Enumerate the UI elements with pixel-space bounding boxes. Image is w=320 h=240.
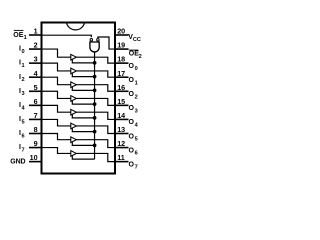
wire input I7 to buffer bbox=[42, 148, 71, 154]
buffer U4 (tri-state) bbox=[71, 96, 77, 102]
junction dot enable row 2 bbox=[93, 75, 97, 79]
wire enable branch to buffer U8 bbox=[72, 156, 94, 159]
enable net vertical line bbox=[94, 52, 96, 159]
buffer U3 (tri-state) bbox=[71, 82, 77, 88]
svg-text:12: 12 bbox=[117, 139, 125, 148]
junction dot enable row 4 bbox=[93, 102, 97, 106]
buffer U8 (tri-state) bbox=[71, 151, 77, 157]
pin 5 stub bbox=[29, 90, 42, 92]
svg-text:13: 13 bbox=[117, 125, 125, 134]
wire enable branch to buffer U2 bbox=[72, 73, 94, 76]
wire buffer U7 output to pin O6 bbox=[76, 140, 115, 148]
pin 9 stub bbox=[29, 147, 42, 149]
pin 4 stub bbox=[29, 76, 42, 78]
pin 19 stub bbox=[115, 48, 129, 50]
svg-text:5: 5 bbox=[22, 119, 25, 125]
IC body outline bbox=[42, 23, 116, 174]
svg-text:4: 4 bbox=[135, 123, 139, 129]
wire enable branch to buffer U7 bbox=[72, 142, 94, 145]
pin 10 stub bbox=[29, 161, 42, 163]
pin 7 stub bbox=[29, 118, 42, 120]
pin 15 stub bbox=[115, 104, 129, 106]
svg-text:O: O bbox=[129, 147, 135, 154]
svg-text:7: 7 bbox=[34, 111, 38, 120]
pin 1 stub bbox=[29, 34, 42, 36]
wire buffer U2 output to pin O1 bbox=[76, 71, 115, 77]
junction dot enable row 1 bbox=[93, 61, 97, 65]
junction dot enable row 6 bbox=[93, 130, 97, 134]
pin 17 stub bbox=[115, 76, 129, 78]
pin 14 stub bbox=[115, 118, 129, 120]
bubble on gate input A bbox=[90, 38, 93, 41]
wire input I4 to buffer bbox=[42, 105, 71, 112]
svg-text:15: 15 bbox=[117, 97, 125, 106]
svg-text:O: O bbox=[129, 119, 135, 126]
svg-text:0: 0 bbox=[135, 66, 138, 72]
pin 13 stub bbox=[115, 132, 129, 134]
svg-text:9: 9 bbox=[34, 139, 38, 148]
svg-text:OE: OE bbox=[13, 32, 23, 39]
pin 12 stub bbox=[115, 147, 129, 149]
svg-text:17: 17 bbox=[117, 69, 125, 78]
svg-text:3: 3 bbox=[135, 108, 138, 114]
wire buffer U6 output to pin O5 bbox=[76, 126, 115, 134]
svg-text:5: 5 bbox=[34, 83, 38, 92]
svg-text:3: 3 bbox=[34, 55, 38, 64]
svg-text:6: 6 bbox=[135, 151, 138, 157]
svg-text:6: 6 bbox=[34, 97, 38, 106]
svg-text:5: 5 bbox=[135, 137, 138, 143]
wire input I1 to buffer bbox=[42, 63, 71, 71]
svg-text:O: O bbox=[129, 91, 135, 98]
wire input I0 to buffer bbox=[42, 49, 71, 57]
svg-text:2: 2 bbox=[135, 94, 138, 100]
junction dot enable row 3 bbox=[93, 89, 97, 93]
svg-text:7: 7 bbox=[22, 147, 25, 153]
wire OE2 to gate bbox=[98, 37, 115, 49]
svg-text:O: O bbox=[129, 77, 135, 84]
svg-text:1: 1 bbox=[22, 63, 25, 69]
junction dot enable row 7 bbox=[93, 144, 97, 148]
buffer U2 (tri-state) bbox=[71, 68, 77, 74]
pin 8 stub bbox=[29, 132, 42, 134]
pin 11 stub bbox=[115, 161, 129, 163]
buffer U5 (tri-state) bbox=[71, 109, 77, 115]
svg-text:19: 19 bbox=[117, 41, 125, 50]
buffer U7 (tri-state) bbox=[71, 137, 77, 143]
svg-text:7: 7 bbox=[135, 165, 138, 171]
svg-text:0: 0 bbox=[22, 49, 25, 55]
wire input I3 to buffer bbox=[42, 91, 71, 98]
junction dot enable row 5 bbox=[93, 116, 97, 120]
svg-text:4: 4 bbox=[34, 69, 38, 78]
wire OE1 to gate bbox=[42, 35, 92, 37]
svg-text:3: 3 bbox=[22, 91, 25, 97]
svg-text:18: 18 bbox=[117, 55, 125, 64]
package notch bbox=[66, 23, 84, 30]
wire enable branch to buffer U3 bbox=[72, 87, 94, 90]
buffer U6 (tri-state) bbox=[71, 123, 77, 129]
svg-text:GND: GND bbox=[10, 158, 25, 165]
svg-text:O: O bbox=[129, 161, 135, 168]
wire input I5 to buffer bbox=[42, 119, 71, 126]
wire input I6 to buffer bbox=[42, 133, 71, 139]
svg-text:CC: CC bbox=[133, 37, 141, 43]
svg-text:6: 6 bbox=[22, 133, 25, 139]
svg-text:10: 10 bbox=[30, 153, 38, 162]
wire enable branch to buffer U5 bbox=[72, 115, 94, 118]
wire buffer U3 output to pin O2 bbox=[76, 85, 115, 92]
svg-text:2: 2 bbox=[139, 54, 142, 60]
pin 6 stub bbox=[29, 104, 42, 106]
pin 18 stub bbox=[115, 62, 129, 64]
pin 16 stub bbox=[115, 90, 129, 92]
svg-text:2: 2 bbox=[34, 41, 38, 50]
svg-text:O: O bbox=[129, 133, 135, 140]
svg-text:1: 1 bbox=[34, 27, 38, 36]
wire enable branch to buffer U4 bbox=[72, 101, 94, 104]
svg-text:14: 14 bbox=[117, 111, 125, 120]
pin 20 stub bbox=[115, 34, 129, 36]
svg-text:1: 1 bbox=[24, 35, 27, 41]
wire enable branch to buffer U1 bbox=[72, 60, 94, 63]
svg-text:4: 4 bbox=[22, 105, 26, 111]
AND gate (enable) bbox=[90, 42, 99, 52]
svg-text:1: 1 bbox=[135, 80, 138, 86]
svg-text:16: 16 bbox=[117, 83, 125, 92]
wire input I2 to buffer bbox=[42, 77, 71, 84]
svg-text:O: O bbox=[129, 63, 135, 70]
pin 2 stub bbox=[29, 48, 42, 50]
svg-text:O: O bbox=[129, 105, 135, 112]
bubble on gate input B bbox=[97, 38, 100, 41]
svg-text:11: 11 bbox=[117, 153, 125, 162]
wire buffer U1 output to pin O0 bbox=[76, 57, 115, 63]
wire buffer U5 output to pin O4 bbox=[76, 112, 115, 119]
svg-text:8: 8 bbox=[34, 125, 38, 134]
svg-text:2: 2 bbox=[22, 77, 25, 83]
wire buffer U4 output to pin O3 bbox=[76, 98, 115, 105]
wire enable branch to buffer U6 bbox=[72, 128, 94, 131]
wire buffer U8 output to pin O7 bbox=[76, 153, 115, 161]
pin 3 stub bbox=[29, 62, 42, 64]
buffer U1 (tri-state) bbox=[71, 54, 77, 60]
svg-text:20: 20 bbox=[117, 27, 125, 36]
